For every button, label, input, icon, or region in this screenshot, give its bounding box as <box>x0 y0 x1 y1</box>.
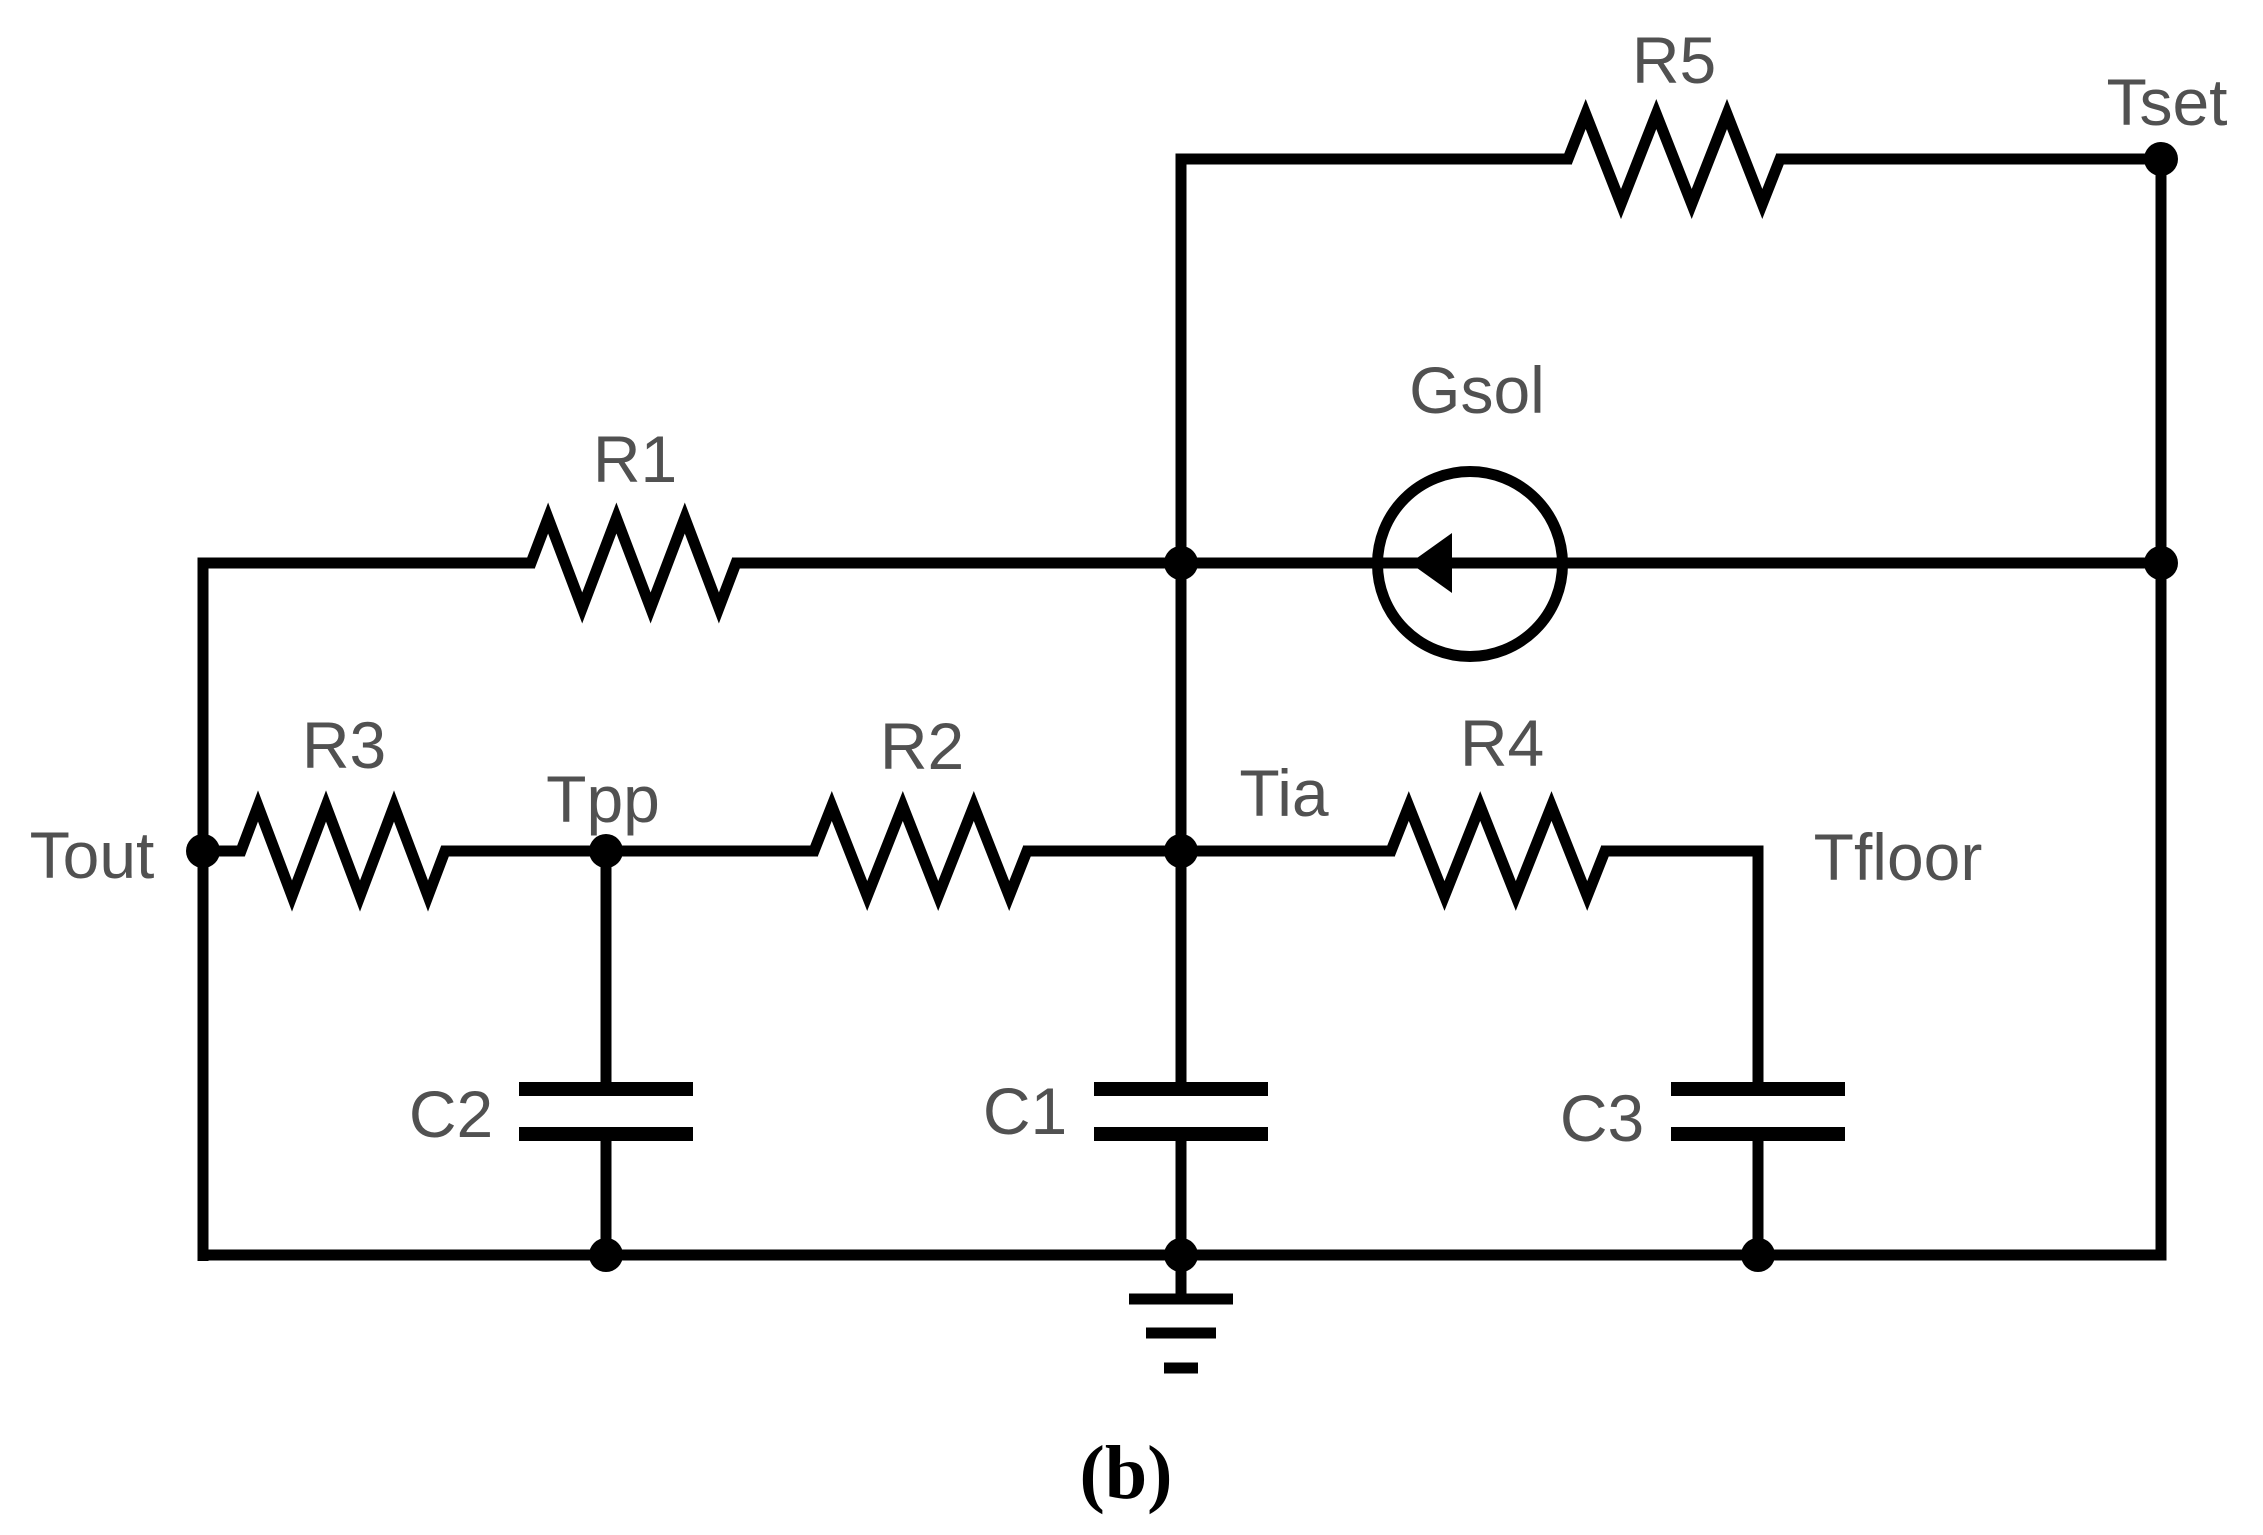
capacitor C3 plates <box>1671 1089 1845 1134</box>
capacitor C2 plates <box>519 1089 693 1134</box>
resistor R1 <box>521 518 746 608</box>
svg-text:Tpp: Tpp <box>546 762 660 836</box>
svg-text:R2: R2 <box>880 709 964 783</box>
node junction dot: center rail x middle row <box>1164 546 1198 580</box>
resistor R3 <box>203 806 455 896</box>
wire bottom rail <box>198 1250 2167 1261</box>
capacitor C1 plates <box>1094 1089 1268 1134</box>
wire right rail vertical <box>2156 159 2167 1255</box>
wire Tout row: Tpp to R2 <box>606 846 818 857</box>
ground bar 3 <box>1164 1363 1198 1374</box>
ground bar 2 <box>1146 1328 1216 1339</box>
svg-text:Tout: Tout <box>30 818 155 892</box>
node junction dot: C1 / ground <box>1164 1238 1198 1272</box>
resistor R4 <box>1381 806 1615 896</box>
ground stem <box>1176 1255 1187 1299</box>
wire Tout row: R2 to Tia <box>1023 846 1181 857</box>
svg-text:Gsol: Gsol <box>1409 353 1545 427</box>
svg-text:C2: C2 <box>409 1077 493 1151</box>
wire middle row left segment <box>203 563 535 1261</box>
node Tset junction dot <box>2144 142 2178 176</box>
current source Gsol circle <box>1378 472 1563 657</box>
wire middle row right segment (through Gsol to right rail) <box>732 558 2161 569</box>
svg-text:Tset: Tset <box>2106 65 2227 139</box>
svg-text:C1: C1 <box>983 1074 1067 1148</box>
node junction dot: C3 bottom <box>1741 1238 1775 1272</box>
wire Tpp stem down to C2 <box>601 851 612 1089</box>
wire Tia row: Tia to R4 <box>1181 846 1395 857</box>
node Tout junction dot <box>186 834 220 868</box>
wire top-left horizontal from center rail to R5 <box>1181 154 1572 165</box>
wire C3 bottom stem <box>1753 1134 1764 1255</box>
wire center rail top vertical <box>1176 154 1187 564</box>
svg-text:Tia: Tia <box>1239 756 1329 830</box>
svg-text:C3: C3 <box>1560 1081 1644 1155</box>
node Tia junction dot <box>1164 834 1198 868</box>
svg-text:R1: R1 <box>593 422 677 496</box>
wire C2 bottom stem <box>601 1134 612 1255</box>
svg-text:R3: R3 <box>302 708 386 782</box>
wire center rail: Tia down to C1 <box>1176 851 1187 1089</box>
resistor R5 <box>1558 114 1790 204</box>
current source Gsol arrow <box>1410 533 1452 593</box>
node Tpp junction dot <box>589 834 623 868</box>
node junction dot: C2 bottom <box>589 1238 623 1272</box>
wire C1 bottom stem <box>1176 1134 1187 1255</box>
wire top-right horizontal from R5 to Tset <box>1776 154 2161 165</box>
svg-text:R4: R4 <box>1460 706 1544 780</box>
ground bar 1 <box>1129 1294 1233 1305</box>
svg-text:(b): (b) <box>1080 1431 1173 1515</box>
node junction dot: right rail x middle row <box>2144 546 2178 580</box>
svg-text:Tfloor: Tfloor <box>1814 820 1983 894</box>
wire Tia row: R4 to Tfloor corner, then down to C3 <box>1601 851 1758 1089</box>
resistor R2 <box>804 806 1037 896</box>
wire center rail mid vertical (middle row to Tia row) <box>1176 563 1187 851</box>
wire Tout row: R3 to Tpp <box>445 846 606 857</box>
svg-text:R5: R5 <box>1632 23 1716 97</box>
